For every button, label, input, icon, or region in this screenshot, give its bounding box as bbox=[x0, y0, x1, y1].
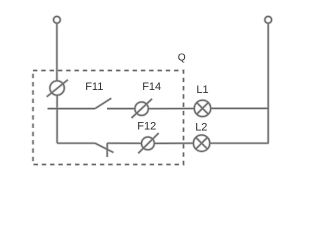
svg-text:F11: F11 bbox=[85, 81, 103, 93]
svg-text:L1: L1 bbox=[196, 84, 208, 96]
svg-text:Q: Q bbox=[178, 53, 186, 64]
svg-text:F12: F12 bbox=[137, 120, 156, 132]
svg-text:L2: L2 bbox=[195, 121, 207, 133]
svg-text:F14: F14 bbox=[142, 81, 161, 93]
